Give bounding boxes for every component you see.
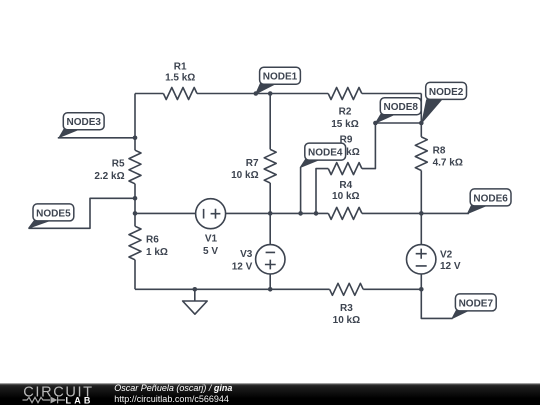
svg-text:V1: V1 [205, 233, 218, 244]
svg-text:4.7 kΩ: 4.7 kΩ [433, 158, 463, 169]
svg-text:NODE8: NODE8 [383, 102, 418, 113]
svg-text:10 kΩ: 10 kΩ [231, 170, 258, 181]
svg-text:NODE4: NODE4 [308, 148, 343, 159]
wire left vertical branch [134, 94, 136, 290]
svg-text:12 V: 12 V [232, 262, 253, 273]
svg-text:12 V: 12 V [440, 261, 461, 272]
resistor R6 [129, 226, 141, 260]
svg-text:2.2 kΩ: 2.2 kΩ [94, 171, 124, 182]
svg-text:R4: R4 [339, 180, 352, 191]
ground [194, 289, 196, 301]
resistor R8 [415, 137, 427, 171]
wire R7/V3 branch [269, 94, 271, 290]
node flag NODE5 [29, 204, 74, 228]
svg-text:NODE3: NODE3 [66, 117, 101, 128]
svg-text:R6: R6 [146, 235, 159, 246]
footer bar [0, 383, 540, 405]
svg-text:Oscar Peñuela (oscarj) / gina: Oscar Peñuela (oscarj) / gina [114, 383, 232, 393]
svg-text:NODE1: NODE1 [263, 72, 298, 83]
wire bottom net [135, 288, 421, 290]
resistor R1 [163, 88, 197, 100]
resistor R9 [328, 163, 362, 175]
wire R9 branch [316, 123, 375, 213]
wire NODE3 stub [58, 137, 135, 139]
voltage source V2 [407, 245, 436, 274]
wire NODE4 stub [300, 168, 302, 214]
svg-text:5 V: 5 V [203, 246, 218, 257]
svg-text:NODE6: NODE6 [473, 193, 508, 204]
wire NODE7 stub [421, 289, 452, 318]
wire NODE8 net [375, 122, 421, 124]
resistor R3 [330, 283, 364, 295]
logo resistor-diode glyph [23, 397, 66, 404]
svg-text:R3: R3 [340, 303, 353, 314]
node flag NODE6 [468, 189, 512, 214]
svg-text:http://circuitlab.com/c566944: http://circuitlab.com/c566944 [114, 394, 229, 404]
resistor R4 [328, 207, 362, 219]
node flag NODE4 [300, 143, 345, 167]
node flag NODE8 [376, 98, 421, 123]
svg-text:15 kΩ: 15 kΩ [331, 119, 358, 130]
svg-text:NODE7: NODE7 [459, 298, 494, 309]
svg-text:V3: V3 [240, 249, 253, 260]
svg-text:NODE5: NODE5 [36, 208, 71, 219]
voltage source V1 [196, 199, 226, 229]
svg-text:R5: R5 [112, 159, 125, 170]
svg-text:10 kΩ: 10 kΩ [333, 315, 360, 326]
svg-text:10 kΩ: 10 kΩ [332, 191, 359, 202]
svg-text:NODE2: NODE2 [429, 87, 464, 98]
svg-text:V2: V2 [440, 250, 453, 261]
svg-text:1.5 kΩ: 1.5 kΩ [165, 73, 195, 84]
node flag NODE7 [452, 294, 496, 319]
resistor R7 [264, 149, 276, 183]
node flag NODE1 [256, 67, 301, 94]
voltage source V3 [256, 245, 285, 274]
wire R8/V2 branch [420, 123, 422, 289]
svg-text:R7: R7 [246, 158, 259, 169]
node flag NODE2 [422, 82, 467, 122]
svg-text:LAB: LAB [66, 396, 94, 405]
svg-text:R8: R8 [433, 145, 446, 156]
resistor R5 [129, 150, 141, 184]
svg-text:R2: R2 [339, 107, 352, 118]
wire top net (NODE1) [135, 94, 421, 124]
resistor R2 [328, 88, 362, 100]
svg-text:1 kΩ: 1 kΩ [146, 247, 168, 258]
svg-text:R1: R1 [174, 61, 187, 72]
wire NODE5 stub [29, 198, 135, 228]
junction dots [133, 136, 138, 141]
wire middle net [135, 212, 469, 214]
node flag NODE3 [59, 113, 104, 138]
